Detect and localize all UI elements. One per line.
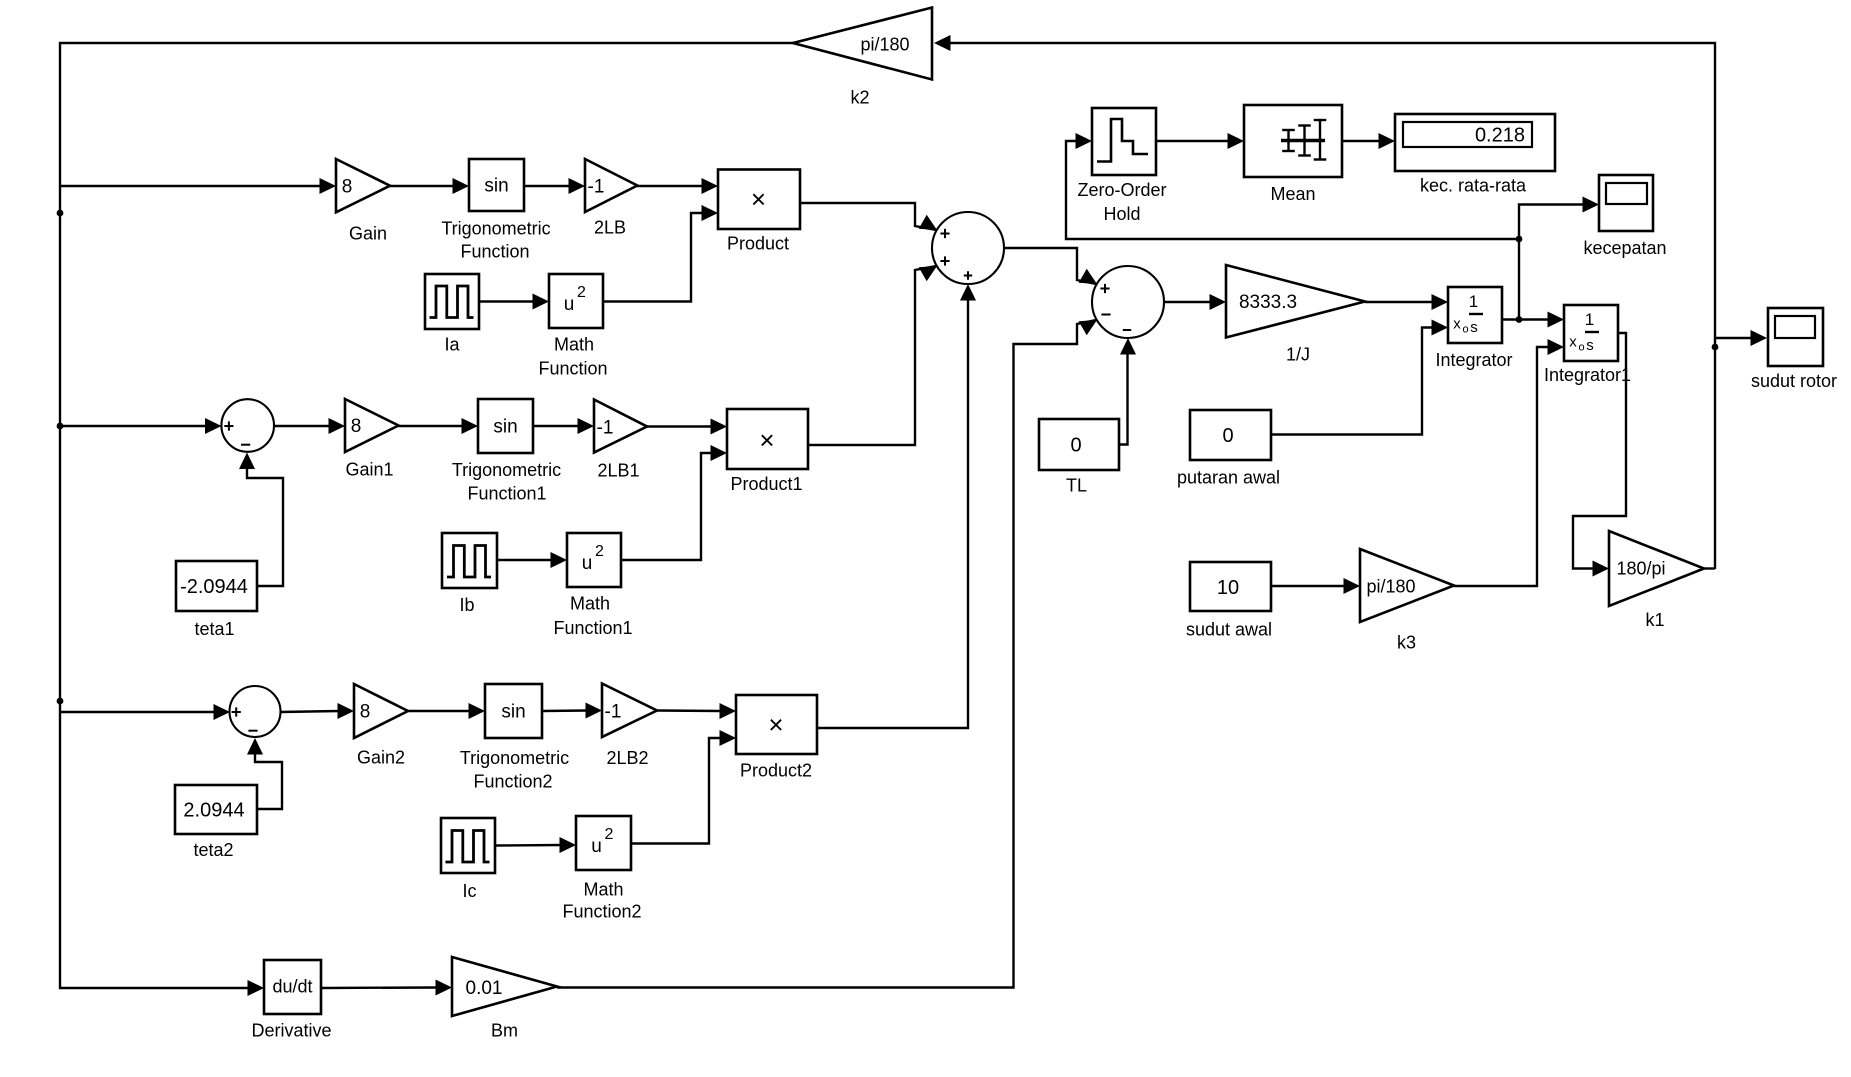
svg-text:-1: -1 [605, 702, 622, 723]
wire speed net to Zero-Order Hold [1066, 133, 1519, 239]
svg-text:×: × [751, 184, 766, 214]
svg-text:8: 8 [360, 702, 371, 723]
gain 2LB2 [602, 684, 657, 738]
svg-text:1: 1 [1585, 310, 1594, 329]
svg-text:kec. rata-rata: kec. rata-rata [1420, 175, 1527, 195]
junction dot Integrator output [1516, 316, 1523, 323]
wire Trigonometric Function2 to 2LB2 [542, 703, 602, 719]
wire Math Function1 to Product1 in2 [621, 445, 727, 560]
wire 2LB2 to Product2 in1 [657, 703, 736, 719]
label Trigonometric Function2 [460, 748, 569, 792]
wire 2LB1 to Product1 in1 [647, 419, 727, 435]
wire Sum1 to 1/J [1164, 294, 1226, 310]
wire Integrator output branch up to kecepatan [1519, 197, 1599, 320]
svg-text:du/dt: du/dt [272, 976, 312, 996]
block Derivative [264, 960, 321, 1014]
wire 2LB to Product in1 [637, 178, 718, 194]
block Integrator1 [1564, 305, 1618, 361]
svg-text:x: x [1453, 315, 1461, 332]
svg-text:o: o [1578, 341, 1584, 353]
junction dot sudut rotor tap [1712, 344, 1719, 351]
sum block Sum2 (plus minus) [221, 399, 274, 452]
wire Trigonometric Function to 2LB [524, 178, 585, 194]
wire k2 output to left bus [60, 43, 793, 988]
svg-text:Gain2: Gain2 [357, 747, 405, 767]
svg-text:8: 8 [351, 416, 362, 437]
block Trigonometric Function2 [485, 684, 542, 738]
svg-text:Mean: Mean [1270, 184, 1315, 204]
svg-text:sin: sin [501, 702, 525, 723]
svg-text:Trigonometric: Trigonometric [441, 218, 550, 238]
wire Math Function2 to Product2 in2 [631, 730, 736, 844]
svg-text:×: × [768, 710, 783, 740]
junction dot bus row3 [57, 698, 64, 705]
wire Integrator1 to k1 [1573, 333, 1626, 577]
svg-text:Product2: Product2 [740, 760, 812, 780]
svg-text:0.01: 0.01 [466, 978, 503, 999]
wire Mean to kec. rata-rata display [1342, 133, 1395, 149]
svg-text:pi/180: pi/180 [1366, 576, 1415, 596]
svg-text:Math: Math [570, 593, 610, 613]
svg-text:kecepatan: kecepatan [1583, 238, 1666, 258]
svg-text:2: 2 [577, 284, 586, 301]
gain k1 [1609, 531, 1704, 606]
sum block Sum3 (plus minus) [230, 686, 281, 737]
constant sudut awal [1190, 562, 1271, 611]
label Zero-Order Hold [1077, 180, 1166, 224]
block Product2 [736, 695, 817, 754]
wire teta2 to Sum3 minus [247, 738, 282, 809]
wire tap to sudut rotor scope [1715, 330, 1767, 346]
svg-text:Zero-Order: Zero-Order [1077, 180, 1166, 200]
svg-text:Hold: Hold [1103, 204, 1140, 224]
svg-text:×: × [759, 425, 774, 455]
wire rotor-angle feedback top right [934, 35, 1715, 569]
wire teta1 to Sum2 minus [239, 453, 283, 587]
svg-text:x: x [1569, 333, 1577, 350]
constant putaran awal [1190, 410, 1271, 460]
wire putaran awal to Integrator x0 [1271, 320, 1448, 435]
svg-text:Math: Math [554, 334, 594, 354]
svg-text:Trigonometric: Trigonometric [460, 748, 569, 768]
block Trigonometric Function1 [478, 399, 533, 453]
svg-text:u: u [582, 553, 593, 574]
gain Gain1 [345, 399, 399, 452]
junction dot bus row2 [57, 423, 64, 430]
svg-text:Function2: Function2 [473, 771, 552, 791]
sum block Sum (3 plus) [932, 212, 1004, 284]
constant TL [1039, 419, 1119, 470]
svg-text:Gain1: Gain1 [345, 459, 393, 479]
svg-text:u: u [591, 836, 602, 857]
svg-text:1/J: 1/J [1286, 344, 1310, 364]
svg-text:2: 2 [605, 826, 614, 843]
svg-text:Function1: Function1 [467, 483, 546, 503]
svg-text:sin: sin [484, 176, 508, 197]
svg-text:teta2: teta2 [193, 840, 233, 860]
wire bus to Sum3 [60, 704, 230, 720]
svg-text:1: 1 [1469, 292, 1478, 311]
svg-text:Function2: Function2 [562, 901, 641, 921]
wire Sum2 to Gain1 [274, 418, 345, 434]
block Product [718, 170, 800, 230]
wire Math Function to Product in2 [603, 205, 718, 302]
wire Trigonometric Function1 to 2LB1 [533, 418, 594, 434]
source block Ib [442, 533, 497, 588]
svg-text:Function1: Function1 [553, 618, 632, 638]
svg-text:s: s [1470, 319, 1478, 336]
svg-text:-1: -1 [588, 177, 605, 198]
svg-text:sudut rotor: sudut rotor [1751, 371, 1837, 391]
gain Bm [452, 957, 557, 1016]
label Math Function [538, 334, 607, 378]
wire Ib to Math Function1 [497, 552, 567, 568]
svg-text:k1: k1 [1645, 610, 1664, 630]
svg-text:0: 0 [1222, 425, 1233, 447]
svg-text:2: 2 [595, 543, 604, 560]
constant teta1 [176, 561, 257, 611]
svg-text:Integrator: Integrator [1435, 350, 1512, 370]
svg-text:Trigonometric: Trigonometric [452, 460, 561, 480]
constant teta2 [175, 785, 257, 834]
svg-text:8333.3: 8333.3 [1239, 292, 1297, 313]
display kec. rata-rata [1395, 114, 1555, 171]
source block Ia [425, 274, 479, 329]
wire Gain2 to Trigonometric Function2 [408, 703, 485, 719]
svg-text:Derivative: Derivative [251, 1020, 331, 1040]
svg-text:s: s [1586, 337, 1594, 354]
wire TL to Sum1 bottom [1119, 338, 1136, 445]
svg-text:2LB1: 2LB1 [597, 460, 639, 480]
gain 2LB1 [594, 400, 647, 453]
svg-text:180/pi: 180/pi [1616, 558, 1665, 578]
svg-text:Math: Math [583, 879, 623, 899]
svg-text:Bm: Bm [491, 1020, 518, 1040]
wire bus to Sum2 [60, 418, 222, 434]
wire 1/J to Integrator [1365, 294, 1448, 310]
block Zero-Order Hold [1092, 108, 1156, 175]
svg-text:teta1: teta1 [194, 619, 234, 639]
scope kecepatan [1599, 175, 1653, 231]
wire Zero-Order Hold to Mean [1156, 133, 1244, 149]
gain k2 [793, 8, 932, 80]
svg-text:sin: sin [493, 417, 517, 438]
wire Integrator output to Integrator1 [1502, 312, 1564, 328]
wire Ia to Math Function [479, 294, 549, 310]
svg-text:TL: TL [1066, 475, 1087, 495]
label Trigonometric Function1 [452, 460, 561, 504]
label Trigonometric Function [441, 218, 550, 261]
wire bus to Gain [60, 178, 336, 194]
svg-text:Gain: Gain [349, 223, 387, 243]
svg-text:sudut awal: sudut awal [1186, 619, 1272, 639]
svg-text:2LB: 2LB [594, 217, 626, 237]
svg-text:0: 0 [1070, 435, 1081, 457]
junction dot bus row1 [57, 210, 64, 217]
gain Gain [336, 159, 390, 212]
wire Sum3 to Gain2 [281, 703, 355, 719]
svg-text:Ib: Ib [459, 595, 474, 615]
wire Product2 to Sum [817, 284, 976, 728]
wire Product to Sum [800, 203, 937, 230]
svg-text:-2.0944: -2.0944 [180, 576, 248, 598]
svg-text:Function: Function [460, 241, 529, 261]
svg-text:u: u [564, 294, 575, 315]
wire Derivative to Bm [321, 980, 452, 996]
block Math Function1 [567, 533, 621, 587]
wire Sum to Sum1 [1004, 248, 1097, 284]
gain 2LB [585, 159, 637, 212]
block Mean [1244, 105, 1342, 177]
scope sudut rotor [1768, 308, 1823, 366]
svg-text:pi/180: pi/180 [860, 34, 909, 54]
svg-text:0.218: 0.218 [1475, 125, 1525, 147]
wire sudut awal to k3 [1271, 578, 1360, 594]
wire k1 output to feedback riser [1704, 567, 1715, 569]
gain Gain2 [354, 684, 408, 738]
svg-text:2.0944: 2.0944 [183, 800, 244, 822]
svg-text:10: 10 [1217, 577, 1239, 599]
svg-text:Function: Function [538, 358, 607, 378]
wire k3 to Integrator1 x0 [1454, 339, 1564, 586]
block Math Function [549, 274, 603, 328]
svg-text:Product: Product [727, 233, 789, 253]
svg-text:Product1: Product1 [730, 474, 802, 494]
svg-text:Integrator1: Integrator1 [1544, 365, 1631, 385]
svg-text:k3: k3 [1397, 632, 1416, 652]
label Math Function2 [562, 879, 641, 921]
gain k3 [1360, 549, 1454, 622]
sum block Sum1 (plus minus minus) [1092, 266, 1164, 338]
source block Ic [441, 818, 495, 873]
block Trigonometric Function [469, 159, 524, 211]
svg-text:-1: -1 [597, 418, 614, 439]
wire Bm to Sum1 minus [557, 320, 1097, 988]
block Math Function2 [576, 816, 631, 870]
block Integrator [1448, 287, 1502, 343]
wire Ic to Math Function2 [495, 837, 576, 853]
svg-text:putaran awal: putaran awal [1177, 467, 1280, 487]
label Math Function1 [553, 593, 632, 638]
svg-text:o: o [1462, 323, 1468, 335]
gain 1/J [1226, 265, 1365, 338]
svg-text:8: 8 [342, 177, 353, 198]
block Product1 [727, 409, 808, 469]
svg-text:Ia: Ia [444, 334, 460, 354]
svg-text:Ic: Ic [462, 881, 476, 901]
svg-text:2LB2: 2LB2 [606, 748, 648, 768]
junction dot speed net [1516, 236, 1523, 243]
wire Product1 to Sum [808, 266, 937, 445]
wire Gain to Trigonometric Function [390, 178, 469, 194]
svg-text:k2: k2 [850, 87, 869, 107]
wire bus to Derivative [248, 980, 265, 996]
wire Gain1 to Trigonometric Function1 [398, 418, 478, 434]
